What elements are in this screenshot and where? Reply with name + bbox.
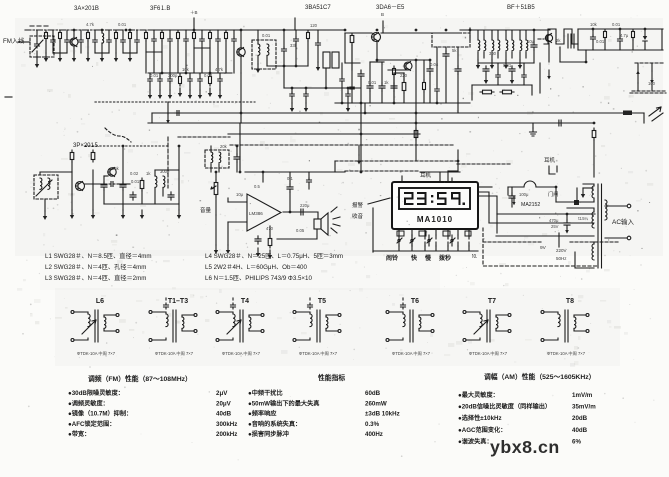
wire (199, 84, 201, 90)
wire (559, 47, 561, 62)
svg-text:40dB: 40dB (572, 427, 588, 434)
wire (445, 47, 447, 52)
wire (351, 45, 353, 70)
svg-text:T6: T6 (411, 298, 419, 305)
ground (257, 64, 259, 70)
svg-text:●20dB信噪比灵敏度（同样输出）: ●20dB信噪比灵敏度（同样输出） (458, 403, 551, 411)
inductor T3 secondary (498, 40, 500, 51)
capacitor C37 output (298, 209, 306, 215)
wire dash91 (632, 90, 666, 92)
wire (267, 65, 308, 67)
wire (108, 45, 110, 53)
wire (283, 30, 285, 48)
T4 adjust arrow (227, 320, 241, 334)
diode D3 (451, 178, 453, 185)
wire hmm (567, 208, 594, 212)
T4 secondary leads (249, 315, 261, 331)
svg-text:300p: 300p (160, 169, 170, 174)
wire (507, 187, 509, 195)
capacitor C12 (200, 37, 205, 43)
wire (66, 45, 68, 53)
wire op-amp output (283, 211, 311, 213)
wire (604, 40, 606, 50)
ground (159, 90, 161, 96)
wire (436, 94, 438, 103)
wire (218, 164, 220, 172)
wire (523, 63, 525, 72)
svg-text:●损害同步脉冲: ●损害同步脉冲 (248, 430, 289, 438)
wire (289, 172, 291, 184)
wire stub (294, 18, 296, 30)
wire (94, 30, 96, 37)
resistor R9 (179, 74, 181, 86)
wire op-amp - input (228, 221, 246, 223)
wire (217, 30, 219, 37)
resistor R8 (177, 30, 179, 41)
junction (236, 145, 239, 148)
wire (95, 52, 109, 54)
junction (125, 29, 128, 32)
jack symbol (549, 166, 557, 174)
wire (593, 140, 595, 177)
capacitor C15e (346, 92, 351, 98)
switch S4 (451, 235, 453, 246)
wire (159, 73, 161, 78)
svg-text:60dB: 60dB (365, 390, 381, 397)
svg-text:20μV: 20μV (216, 400, 232, 407)
wire (536, 186, 556, 188)
junction (360, 171, 363, 174)
junction (240, 112, 243, 115)
T8 secondary coil (574, 317, 576, 328)
wire rail88 (284, 87, 360, 89)
resistor R13b (393, 66, 395, 77)
inductor T2 primary (478, 40, 480, 51)
wire (236, 162, 238, 172)
resistor R12 (351, 33, 353, 45)
wire op-amp + input (228, 201, 246, 203)
svg-text:●调频灵敏度：: ●调频灵敏度： (68, 399, 109, 407)
junction (161, 72, 164, 75)
svg-text:0.01: 0.01 (612, 22, 621, 27)
svg-text:ΦTDK-10A 中周 7×7: ΦTDK-10A 中周 7×7 (155, 350, 194, 357)
svg-text:4.7μ: 4.7μ (620, 33, 629, 38)
wire (153, 44, 155, 73)
T7 secondary coil (496, 317, 498, 328)
junction (129, 29, 132, 32)
svg-text:10μ: 10μ (236, 192, 244, 197)
wire (71, 162, 73, 172)
wire (351, 45, 353, 84)
capacitor C15 (294, 37, 299, 43)
resistor R19 (632, 29, 634, 40)
wire (185, 44, 187, 73)
svg-text:40dB: 40dB (216, 411, 232, 418)
capacitor C35 (234, 154, 240, 162)
wire (18, 41, 30, 43)
wire (351, 92, 353, 103)
inductor T1 primary (258, 44, 260, 55)
wire (347, 88, 349, 93)
capacitor C51 (51, 38, 56, 44)
wire long drop (360, 103, 362, 161)
T4 secondary coil (249, 317, 251, 328)
wire (478, 62, 534, 64)
junction (619, 28, 622, 31)
wire (619, 44, 621, 50)
capacitor C57 (93, 38, 98, 44)
arrow up (637, 73, 639, 83)
resistor R30 (45, 30, 47, 41)
junction (193, 29, 196, 32)
ground (269, 250, 271, 256)
junction (73, 29, 76, 32)
capacitor C41 470u (564, 220, 570, 228)
wire (307, 41, 309, 66)
wire arrow (548, 70, 550, 77)
resistor R10 (193, 30, 195, 41)
wire (403, 73, 405, 80)
wire (575, 235, 594, 237)
wire dash164 (457, 163, 512, 165)
svg-text:BF＋51B5: BF＋51B5 (507, 4, 535, 11)
wire (423, 60, 425, 80)
transformer T6 drawing (389, 312, 399, 340)
wire (36, 51, 38, 59)
svg-text:●频率响应: ●频率响应 (248, 410, 277, 418)
transistor Q7 (108, 168, 116, 176)
wire (364, 103, 366, 113)
wire (369, 62, 371, 84)
wire (240, 73, 242, 123)
ground (215, 245, 217, 251)
wire (651, 81, 653, 91)
svg-text:T4: T4 (241, 298, 249, 305)
T9 secondary winding b (592, 212, 594, 228)
junction (585, 61, 588, 64)
wire (233, 30, 235, 37)
T4 tuning capacitor (231, 303, 236, 309)
junction (347, 87, 350, 90)
svg-text:0.01: 0.01 (503, 63, 512, 68)
wire (145, 41, 147, 73)
clock pin stubs (399, 229, 469, 235)
wire (239, 123, 241, 172)
ground (305, 103, 307, 109)
wire (101, 30, 103, 33)
svg-text:3DA6－E5: 3DA6－E5 (376, 5, 405, 11)
capacitor C14 (216, 37, 221, 43)
ground (71, 210, 73, 216)
svg-text:200kHz: 200kHz (216, 431, 237, 438)
transistor Q3 3DA51C (372, 33, 381, 42)
wire (497, 63, 499, 72)
resistor R22 (92, 150, 94, 162)
wire corner (643, 113, 645, 123)
svg-text:●AFC锁定范围：: ●AFC锁定范围： (68, 420, 115, 428)
wire (117, 183, 130, 185)
L6 primary coil (88, 314, 90, 327)
wire switch common (373, 250, 478, 252)
inductor T5 primary (520, 40, 522, 51)
capacitor C16 (358, 71, 364, 79)
svg-text:4.7k: 4.7k (215, 67, 224, 72)
T8 primary coil (558, 314, 560, 327)
wire (566, 214, 568, 220)
wire (439, 189, 441, 197)
svg-text:0.02: 0.02 (130, 171, 139, 176)
wire dashdot rail171 (345, 170, 420, 172)
wire (240, 56, 242, 73)
wire (531, 85, 533, 95)
ground (44, 211, 46, 217)
svg-text:220V: 220V (556, 248, 567, 253)
wire (457, 47, 459, 67)
wire (283, 66, 285, 88)
wire (403, 73, 405, 80)
svg-text:●AGC范围变化：: ●AGC范围变化： (458, 426, 506, 434)
antenna arrow (649, 107, 663, 121)
wire (227, 198, 229, 202)
ground (45, 53, 47, 59)
ground (179, 88, 181, 94)
resistor R23 (141, 178, 143, 191)
capacitor C13 (188, 77, 193, 83)
wire (478, 192, 489, 223)
capacitor C16c (350, 85, 355, 91)
svg-text:●50mW输出下的最大失真: ●50mW输出下的最大失真 (248, 399, 320, 407)
L6 primary leads (84, 312, 88, 340)
wire (185, 30, 187, 37)
wire (548, 43, 550, 62)
resistor R36 (87, 30, 89, 41)
L6 core (95, 310, 98, 342)
wire right edge (661, 29, 663, 50)
svg-text:100μ: 100μ (519, 192, 529, 197)
svg-text:报警: 报警 (352, 201, 364, 209)
wire (370, 61, 384, 63)
capacitor C9b (175, 111, 181, 116)
wire (558, 233, 560, 247)
T6 primary coil (403, 314, 405, 327)
junction (239, 171, 242, 174)
wire row60 (377, 59, 430, 61)
wire rail sect2 (148, 72, 232, 74)
inductor T4 secondary (512, 40, 514, 51)
wire (393, 78, 395, 103)
T1–T3 secondary coil (182, 317, 184, 328)
T6 secondary leads (419, 315, 431, 331)
capacitor C27 (591, 35, 596, 41)
capacitor C13c (218, 77, 223, 83)
wire (178, 146, 180, 210)
capacitor C8 (168, 37, 173, 43)
T1–T3 secondary leads (182, 315, 194, 331)
wire (593, 242, 595, 244)
wire (345, 62, 360, 64)
svg-text:470μ: 470μ (549, 218, 559, 223)
capacitor C55 (79, 38, 84, 44)
ground (115, 53, 117, 59)
svg-text:0.1: 0.1 (287, 176, 293, 181)
wire (233, 44, 235, 73)
junction (644, 28, 647, 31)
wire (215, 197, 217, 215)
svg-text:50Hz: 50Hz (556, 256, 567, 261)
wire (436, 47, 438, 86)
svg-text:MA1010: MA1010 (417, 215, 453, 224)
wire (71, 172, 73, 194)
resistor R14b (423, 80, 425, 92)
transistor Q1 3DG201B (70, 38, 78, 46)
wire (142, 203, 179, 205)
wire rail223 (489, 222, 594, 224)
wire (210, 164, 212, 172)
wire (295, 30, 297, 37)
resistor R17 (500, 91, 514, 93)
svg-text:400Hz: 400Hz (365, 431, 383, 438)
svg-text:ΦTDK-10A 中周 7×7: ΦTDK-10A 中周 7×7 (547, 350, 586, 357)
wire (291, 88, 293, 93)
wire (153, 30, 155, 37)
capacitor C15c (290, 92, 295, 98)
wire clock top stub2 (447, 171, 449, 182)
ground (36, 59, 38, 65)
transformer T5 drawing (296, 312, 306, 340)
wire (101, 43, 103, 53)
transistor Q6 3DG201 (76, 182, 85, 191)
capacitor C6 (152, 37, 157, 43)
svg-text:220μ: 220μ (300, 203, 310, 208)
svg-text:AC输入: AC输入 (612, 217, 635, 226)
T4 core (240, 310, 243, 342)
wire (149, 84, 151, 90)
svg-text:56k: 56k (112, 166, 120, 171)
svg-text:ΦTDK-10A 中周 7×7: ΦTDK-10A 中周 7×7 (392, 350, 431, 357)
svg-text:10μ: 10μ (527, 39, 535, 44)
ground (141, 210, 143, 216)
junction (436, 102, 439, 105)
T9 primary winding (605, 200, 607, 220)
svg-text:220: 220 (400, 73, 408, 78)
wire (36, 30, 38, 41)
ground (87, 53, 89, 59)
inductor L2 antenna coil (40, 178, 42, 189)
T1–T3 primary coil (166, 314, 168, 327)
junction (283, 65, 286, 68)
resistor R42 (129, 30, 131, 41)
capacitor C31b (109, 182, 115, 187)
svg-text:耳机: 耳机 (544, 156, 556, 164)
svg-text:⒓5¼: ⒓5¼ (578, 216, 589, 221)
wire rail sect3 (335, 102, 470, 104)
coupling loops (323, 52, 330, 68)
trimmer arrow (32, 40, 43, 52)
transformer T8 drawing (544, 312, 554, 340)
wire (201, 44, 203, 73)
wire stub (469, 28, 471, 40)
wire (295, 44, 297, 66)
svg-text:0.5: 0.5 (254, 184, 260, 189)
svg-text:T7: T7 (488, 298, 496, 305)
inductor T4 primary (506, 40, 508, 51)
T5 tuning capacitor (308, 303, 313, 309)
resistor R9b (209, 74, 211, 86)
wire (177, 41, 179, 73)
junction (576, 201, 579, 204)
wire (236, 146, 238, 155)
svg-text:L1 SWG28＃、N＝8.5匝、直径＝4mm: L1 SWG28＃、N＝8.5匝、直径＝4mm (45, 252, 152, 260)
wire (66, 30, 68, 37)
junction (566, 213, 569, 216)
junction (209, 72, 212, 75)
wire (73, 46, 75, 53)
wire (266, 56, 268, 66)
resistor R14 (415, 128, 417, 140)
wire (53, 52, 67, 54)
wire (605, 237, 627, 239)
wire (169, 44, 171, 73)
capacitor C12 (168, 77, 173, 83)
svg-text:耳机: 耳机 (420, 171, 432, 179)
svg-text:100: 100 (648, 81, 656, 86)
svg-text:0.01: 0.01 (368, 80, 377, 85)
junction (295, 65, 298, 68)
capacitor C38 (255, 236, 261, 244)
T5 secondary leads (326, 315, 338, 331)
svg-text:FM入线: FM入线 (3, 37, 24, 45)
junction (360, 133, 363, 136)
ground (209, 88, 211, 94)
wire (129, 41, 131, 53)
capacitor C15d (304, 92, 309, 98)
junction (240, 29, 243, 32)
wire dashed supply2 (570, 241, 620, 243)
wire (209, 41, 211, 73)
wire (592, 42, 594, 50)
wire (381, 62, 383, 84)
op-amp U1 LM386 triangle (247, 194, 281, 231)
pot RP1 (215, 180, 217, 197)
wire (508, 186, 524, 188)
capacitor C16b (340, 77, 345, 83)
resistor R21 (71, 150, 73, 162)
svg-text:0.01: 0.01 (118, 22, 127, 27)
transistor Q3b (404, 62, 412, 70)
display dot (463, 203, 466, 206)
power supply dashed box (483, 228, 597, 266)
wire (605, 205, 627, 207)
capacitor C10 (184, 37, 189, 43)
svg-text:B: B (381, 12, 384, 17)
wire (308, 172, 310, 179)
wire (334, 161, 336, 172)
wire (227, 222, 229, 245)
wire (199, 73, 201, 78)
inductor T1 secondary (267, 44, 269, 55)
junction (415, 112, 418, 115)
junction (592, 28, 595, 31)
svg-text:⒑: ⒑ (472, 254, 477, 260)
wire vertical dashdot (167, 137, 169, 188)
wire (45, 41, 47, 53)
T1–T3 primary leads (162, 312, 166, 340)
display digit 5 (437, 192, 447, 194)
junction (122, 145, 125, 148)
wire (341, 84, 343, 103)
capacitor C36b (307, 178, 312, 184)
wire (369, 91, 371, 103)
